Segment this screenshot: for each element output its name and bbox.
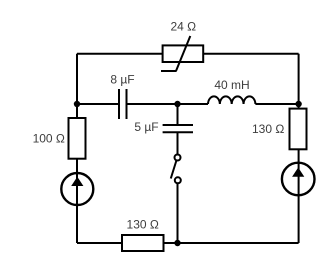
resistor 100 ohm body <box>69 118 86 159</box>
wire middle branch above 5uF <box>177 104 179 125</box>
capacitor 8uF left plate <box>118 89 120 119</box>
capacitor 5uF bottom plate <box>163 131 193 133</box>
svg-text:100 Ω: 100 Ω <box>33 132 65 146</box>
current source left circle <box>61 173 93 205</box>
switch top terminal circle <box>175 155 181 161</box>
svg-text:24 Ω: 24 Ω <box>170 20 196 34</box>
resistor 24 ohm wiper end bar <box>161 70 177 72</box>
current source right arrowhead <box>292 168 304 177</box>
wire middle horizontal right <box>255 103 298 105</box>
switch blade <box>171 161 177 179</box>
capacitor 8uF right plate <box>126 89 128 119</box>
wire middle horizontal left <box>77 103 119 105</box>
wire right vertical upper <box>298 54 300 109</box>
node dot right <box>295 101 301 107</box>
svg-text:130 Ω: 130 Ω <box>127 218 159 232</box>
wire middle branch below switch <box>177 184 179 244</box>
resistor 130 ohm bottom body <box>122 235 164 251</box>
capacitor 5uF top plate <box>163 124 193 126</box>
svg-text:8 µF: 8 µF <box>110 73 134 87</box>
node dot middle <box>174 101 180 107</box>
svg-text:130 Ω: 130 Ω <box>252 122 284 136</box>
inductor 40mH <box>208 96 255 104</box>
wire middle branch between 5uF and switch <box>177 132 179 154</box>
wire right vertical lower (through current source) <box>298 149 300 243</box>
wire middle horizontal center <box>127 103 209 105</box>
resistor 24 ohm (variable, top) body <box>163 45 204 62</box>
node dot left <box>74 101 80 107</box>
wire left vertical upper <box>76 54 78 118</box>
svg-text:40 mH: 40 mH <box>214 78 249 92</box>
wire left vertical lower (through current source) <box>76 159 78 243</box>
node dot bottom <box>174 240 180 246</box>
resistor 24 ohm wiper diagonal <box>176 36 190 71</box>
wire bottom left segment <box>77 242 122 244</box>
wire top right segment <box>203 53 298 55</box>
resistor 130 ohm right body <box>290 109 307 150</box>
wire bottom right segment <box>164 242 299 244</box>
wire top left segment <box>77 53 163 55</box>
svg-text:5 µF: 5 µF <box>134 120 158 134</box>
current source left arrowhead <box>71 177 83 186</box>
switch bottom terminal circle <box>175 177 181 183</box>
current source right circle <box>282 163 315 196</box>
